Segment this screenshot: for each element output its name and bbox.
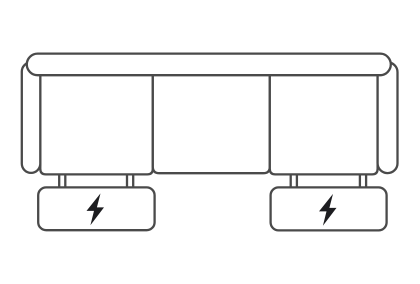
left lightning bolt icon [87,193,105,225]
right seat cushion [270,62,378,174]
left armrest [22,62,41,173]
sofa backrest [27,54,391,76]
right armrest [378,62,398,173]
right lightning bolt icon [319,194,337,226]
left front leg of left power unit [59,170,65,190]
left power box [38,187,154,230]
right power box [271,187,387,230]
left seat cushion [40,62,153,174]
right front leg of right power unit [360,170,366,190]
left front leg of right power unit [291,170,297,190]
middle seat cushion [153,62,270,173]
right front leg of left power unit [127,170,133,190]
